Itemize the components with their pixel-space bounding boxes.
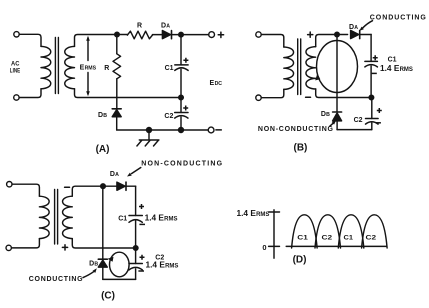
ground symbol [137,140,159,146]
terminal A top [14,32,19,37]
diode DA-B cathode bar [359,30,361,38]
wire resistor to diode [153,34,163,36]
node A top junction [115,32,120,37]
transformer T2 core [298,39,301,95]
capacitor C1-C bottom lead [135,221,137,248]
svg-text:NON-CONDUCTING: NON-CONDUCTING [258,126,334,133]
plus sign C1-C [139,204,144,209]
wire to + output [181,34,209,36]
tick 1.4 ERMS level [269,211,280,213]
plus sign C1-B [373,55,378,60]
terminal A bottom [14,95,19,100]
transformer T3 primary winding [39,196,49,238]
svg-text:LINE: LINE [10,68,21,75]
resistor R shunt [113,54,121,79]
svg-text:(A): (A) [96,144,110,155]
node B bottom right junction [369,95,374,100]
svg-text:DA: DA [110,171,119,178]
bottom rail A [117,129,209,131]
diode DA-B triangle [351,30,359,38]
svg-text:C1: C1 [165,65,174,72]
plus sign C2-A [183,106,188,111]
svg-text:R: R [137,23,142,30]
terminal A output plus [209,32,215,38]
minus sign C2-B [376,122,381,124]
diode DB-B cathode bar [333,111,342,113]
svg-text:1.4 ERMS: 1.4 ERMS [380,63,413,73]
capacitor C1-C curved plate [129,220,142,223]
wire C right down [135,186,137,215]
diode DB-C triangle [98,260,107,267]
wire B secondary bottom rail [316,89,372,98]
plus sign output A [218,32,223,37]
baseline D [286,245,386,247]
diode DA-C cathode bar [125,182,127,190]
transformer T1 primary winding [41,46,51,88]
capacitor C2-C bottom lead [135,269,137,280]
wire DA-C to corner [127,185,136,187]
svg-text:DB: DB [98,112,107,119]
svg-text:1.4 ERMS: 1.4 ERMS [146,260,179,270]
capacitor C2-C straight plate [129,263,142,265]
capacitor C1 bottom lead [180,69,182,97]
terminal A output minus [208,127,214,133]
svg-text:1.4 ERMS: 1.4 ERMS [237,208,270,218]
wire B center vertical [336,37,338,112]
wire C primary top [12,184,39,196]
plus sign C secondary [62,245,67,250]
tick zero level [269,245,280,247]
svg-text:C1: C1 [297,234,308,241]
svg-text:DB: DB [321,111,330,118]
minus sign C2-C [138,270,144,272]
hump C1 third [338,215,364,248]
plus sign C1-A [183,58,188,63]
diode DB-C cathode bar [98,258,107,260]
minus sign B secondary [306,96,311,98]
svg-text:R: R [104,65,109,72]
transformer T2 secondary winding [306,47,316,89]
current loop arrowhead C [108,257,114,262]
svg-text:NON-CONDUCTING: NON-CONDUCTING [141,161,223,168]
wire A secondary bottom to mid rail [75,89,182,98]
svg-text:CONDUCTING: CONDUCTING [29,276,83,283]
leader arrow CONDUCTING C [83,272,94,278]
terminal B top [256,32,261,37]
plus sign B secondary [308,32,313,37]
wire B primary bottom [261,89,284,97]
diode DB triangle [112,110,121,117]
wire DA to C1 node [172,34,181,36]
capacitor C2-B curved plate [366,122,379,124]
diode DA-C triangle [117,182,125,190]
axis vertical D [273,210,275,258]
capacitor C2-C curved plate [129,267,142,270]
current loop ellipse C [110,252,130,277]
svg-text:DA: DA [161,23,170,30]
svg-text:C2: C2 [366,234,377,241]
minus sign output A [216,129,221,131]
wire C primary bottom [12,239,40,248]
svg-text:C1: C1 [118,216,127,223]
wire DB to bottom rail [116,117,118,130]
diode DA anode triangle [162,31,170,39]
capacitor C1 top lead [180,37,182,65]
minus sign C1-B [372,72,377,74]
capacitor C2 curved plate [175,116,188,118]
svg-text:EDC: EDC [210,80,223,87]
wire DB-B to lower rail [336,121,338,130]
leader arrow CONDUCTING B [363,21,373,28]
plus sign C2-B [377,108,382,113]
capacitor C2-B top lead [371,98,373,119]
svg-text:CONDUCTING: CONDUCTING [370,15,427,22]
minus sign C1-C [139,223,145,225]
wire shunt R to DB [116,79,118,109]
current loop ellipse B [317,41,358,93]
capacitor C2-B straight plate [366,118,379,120]
minus sign C secondary [65,186,70,188]
capacitor C1 straight plate [175,64,188,66]
transformer T3 secondary winding [63,196,73,238]
wire C secondary top rail [72,186,117,196]
hump C2 fourth [362,215,388,248]
svg-text:0: 0 [262,243,266,252]
node A mid junction [179,95,184,100]
svg-text:(B): (B) [294,142,308,153]
node C top junction [101,184,106,189]
svg-text:1.4 ERMS: 1.4 ERMS [145,213,178,223]
transformer T1 core [55,38,58,94]
diode DB-B triangle [333,113,342,121]
capacitor C2 straight plate [175,112,188,114]
lower rail C [103,278,136,280]
svg-text:DA: DA [349,24,358,31]
wire C left vertical [102,186,104,259]
hump C2 second [315,215,341,248]
svg-text:DB: DB [89,261,98,268]
wire B secondary top rail [316,35,348,47]
capacitor C1 curved plate [175,68,188,71]
ground stub [148,130,150,140]
terminal B bottom [256,95,261,100]
wire C secondary bottom rail [72,239,135,248]
node ground junction [147,128,152,133]
svg-text:C2: C2 [322,234,333,241]
svg-text:(C): (C) [101,291,115,302]
wire to series resistor [117,34,127,37]
plus sign C2-C [140,255,145,260]
node B top junction [335,32,340,37]
node C mid junction [133,246,138,251]
svg-text:(D): (D) [293,255,307,266]
wire B right down [370,35,372,62]
current loop arrowhead B [315,73,320,80]
transformer T2 primary winding [284,47,294,89]
hump C1 first [292,215,318,248]
capacitor C1-B bottom lead [370,66,372,98]
lower rail B [337,129,372,131]
terminal C bottom [6,245,11,250]
diode DB cathode bar [112,108,121,110]
wire A secondary top rail [75,35,118,47]
leader arrow NON-CONDUCTING C [132,168,141,174]
node C2 bottom junction [179,128,184,133]
leader arrow NON-CONDUCTING B [330,123,333,126]
capacitor C1-B straight plate [365,60,378,62]
wire DA-B to corner [360,34,371,36]
capacitor C2-B bottom lead [371,123,373,130]
svg-text:ERMS: ERMS [80,64,97,71]
transformer T1 secondary winding [65,46,75,88]
terminal C top [7,182,12,187]
capacitor C2 top lead [180,98,182,113]
ERMS arrow [87,38,89,94]
svg-text:C1: C1 [344,234,354,241]
wire A primary bottom [19,89,41,98]
resistor R series [127,31,152,39]
diode DA cathode bar [171,31,173,39]
capacitor C1-B curved plate [365,65,378,67]
capacitor C2-C top lead [135,250,137,263]
wire DB-C to lower rail [102,267,104,279]
svg-text:C2: C2 [164,113,173,120]
capacitor C1-C straight plate [129,215,142,217]
capacitor C2 bottom lead [180,117,182,130]
transformer T3 core [55,190,58,245]
svg-text:C2: C2 [354,117,363,124]
resistor R shunt lead [116,35,118,54]
node C1 top junction [179,32,184,37]
wire B primary top [261,35,284,48]
wire A primary top [19,34,41,46]
